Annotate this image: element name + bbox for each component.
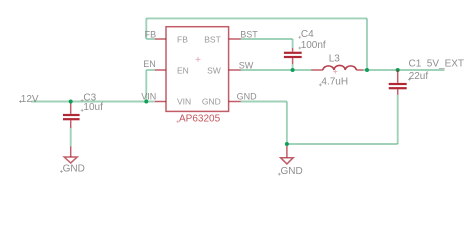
- IC U1 AP63205 body: [166, 27, 229, 112]
- svg-text:FB: FB: [177, 34, 188, 44]
- svg-text:EN: EN: [177, 65, 189, 75]
- junction dot at C1: [396, 68, 400, 72]
- wire net 5V_EXT from inductor to C1 and open end: [363, 69, 444, 71]
- label origin tick 12V: [19, 100, 22, 103]
- label origin tick C3: [81, 99, 84, 102]
- junction dot gnd rail: [285, 142, 289, 146]
- junction dot at inductor/FB node: [365, 68, 369, 72]
- svg-text:AP63205: AP63205: [179, 113, 221, 124]
- svg-text:100nf: 100nf: [301, 40, 326, 51]
- wire net EN: vertical down to VIN rail: [145, 70, 147, 102]
- inductor L3 left lead: [312, 69, 323, 71]
- svg-text:GND: GND: [237, 92, 258, 102]
- wire net FB: vertical down to output node: [366, 18, 368, 70]
- IC pin stub GND: [229, 101, 241, 103]
- label origin tick 10uf: [81, 109, 84, 112]
- svg-text:L3: L3: [329, 54, 341, 65]
- wire C3 to ground: [70, 128, 72, 146]
- svg-text:GND: GND: [63, 163, 85, 174]
- capacitor C3 bottom lead: [70, 120, 72, 128]
- IC pin stub EN: [155, 69, 166, 71]
- wire net BST vertical down to C4: [292, 39, 294, 48]
- ground symbol left stub: [70, 146, 72, 157]
- ground symbol right stub: [286, 146, 288, 158]
- inductor L3 right lead: [356, 69, 363, 71]
- IC pin stub FB: [155, 38, 166, 40]
- svg-text:GND: GND: [281, 166, 303, 177]
- svg-text:C4: C4: [301, 29, 314, 40]
- svg-text:VIN: VIN: [141, 92, 156, 102]
- capacitor C1 top lead: [397, 70, 399, 83]
- IC pin stub SW: [229, 69, 241, 71]
- inductor L3 origin cross: [333, 70, 337, 74]
- wire net FB: top horizontal rail: [146, 17, 367, 19]
- IC pin stub BST: [229, 38, 241, 40]
- wire net EN: segment from pin to corner: [146, 69, 155, 71]
- label origin tick GND right: [278, 173, 281, 176]
- wire net BST horizontal: [241, 38, 293, 40]
- IC origin cross: [196, 57, 201, 62]
- wire net FB: segment from pin to corner: [146, 38, 155, 40]
- junction dot at C4: [291, 68, 295, 72]
- label origin tick 22uf: [408, 78, 411, 81]
- capacitor C4 top lead: [292, 48, 294, 52]
- capacitor C3 plates: [63, 114, 80, 116]
- svg-text:4.7uH: 4.7uH: [321, 77, 348, 88]
- svg-text:SW: SW: [239, 61, 254, 71]
- label origin tick 4.7uH: [319, 84, 322, 87]
- wire net SW horizontal to inductor: [241, 69, 312, 71]
- svg-text:5V_EXT: 5V_EXT: [427, 59, 464, 70]
- wire bottom gnd rail: [287, 143, 398, 145]
- svg-text:BST: BST: [204, 34, 221, 44]
- label origin tick GND left: [60, 170, 63, 173]
- wire C1 bottom lead (green): [397, 95, 399, 144]
- IC name AP63205 origin tick: [176, 120, 179, 123]
- wire net GND from pin: [241, 101, 287, 103]
- svg-text:SW: SW: [207, 65, 221, 75]
- capacitor C1 plates: [389, 83, 407, 85]
- svg-text:EN: EN: [143, 59, 156, 69]
- wire net FB: vertical up to top rail: [145, 18, 147, 39]
- svg-text:C1: C1: [409, 59, 422, 70]
- wire C4 bottom to SW node: [292, 64, 294, 70]
- capacitor C4 plates: [284, 52, 302, 54]
- inductor L3 humps: [323, 65, 356, 70]
- wire net 12V horizontal rail: [31, 101, 155, 103]
- junction dot at C3: [69, 100, 73, 104]
- junction dot at VIN pin: [144, 100, 148, 104]
- svg-text:VIN: VIN: [177, 97, 191, 107]
- label origin tick C4: [298, 36, 301, 39]
- svg-text:12V: 12V: [21, 94, 39, 105]
- IC pin stub VIN: [155, 101, 166, 103]
- ground symbol right triangle: [281, 158, 294, 164]
- svg-text:GND: GND: [202, 97, 221, 107]
- capacitor C4 bottom lead: [292, 58, 294, 64]
- label origin tick 100nf: [298, 47, 301, 50]
- ground symbol left triangle: [64, 157, 77, 163]
- wire net GND vertical down: [286, 102, 288, 145]
- capacitor C1 bottom lead: [397, 89, 399, 95]
- svg-text:22uf: 22uf: [409, 71, 429, 82]
- svg-text:FB: FB: [145, 29, 157, 39]
- svg-text:BST: BST: [240, 30, 258, 40]
- svg-text:10uf: 10uf: [83, 102, 103, 113]
- capacitor C3 top lead: [70, 102, 72, 114]
